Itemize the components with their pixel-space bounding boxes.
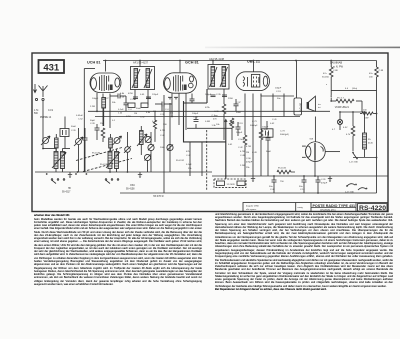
svg-text:C.19: C.19 bbox=[48, 110, 54, 112]
svg-text:C.42: C.42 bbox=[238, 147, 243, 149]
loudspeaker LS bbox=[307, 96, 322, 111]
trimmer capacitor CT1 bbox=[41, 136, 50, 145]
svg-text:C.19: C.19 bbox=[276, 91, 281, 93]
mechanical link (dashed vertical) bbox=[206, 130, 208, 190]
svg-text:50fl: 50fl bbox=[310, 139, 314, 141]
mid-right label column bbox=[246, 146, 257, 169]
capacitor C91 bbox=[316, 176, 328, 193]
svg-text:2.2M: 2.2M bbox=[240, 165, 245, 167]
svg-text:4700: 4700 bbox=[126, 116, 132, 118]
antenna coupling labels bbox=[34, 110, 54, 119]
antenna filter box bbox=[60, 115, 83, 137]
svg-text:30-450: 30-450 bbox=[322, 77, 330, 79]
svg-text:C.89: C.89 bbox=[379, 70, 384, 72]
svg-text:GCH 81: GCH 81 bbox=[185, 61, 199, 65]
front-end value labels row bbox=[118, 108, 174, 119]
svg-text:10k: 10k bbox=[216, 124, 220, 126]
ground symbols on chassis bus bbox=[68, 172, 332, 182]
wire: left chassis bus bbox=[35, 171, 212, 173]
wire: IF1 connections bbox=[135, 61, 148, 106]
oscillator feedback coil L4 (under V1) bbox=[102, 98, 106, 127]
wave band switch box (dashed) bbox=[214, 179, 246, 188]
drawing number RS-4220 bbox=[358, 204, 388, 211]
svg-text:95-4132: 95-4132 bbox=[278, 168, 287, 170]
svg-text:0.01: 0.01 bbox=[228, 144, 233, 146]
tone capacitor C73 labels bbox=[250, 119, 277, 127]
svg-text:0.05: 0.05 bbox=[140, 94, 145, 96]
svg-text:VC4B UBL21: VC4B UBL21 bbox=[335, 106, 350, 109]
coil section labels bbox=[62, 185, 164, 198]
svg-text:C.44: C.44 bbox=[270, 189, 275, 191]
wire: ground bus bbox=[212, 175, 388, 177]
padder capacitor CT3 bbox=[148, 132, 154, 172]
svg-text:5000(pF): 5000(pF) bbox=[280, 134, 289, 136]
oscillator coil L2 (hatched, tuned) bbox=[106, 149, 120, 173]
svg-text:100pF: 100pF bbox=[236, 132, 243, 134]
svg-text:750: 750 bbox=[280, 181, 284, 183]
svg-text:2-17-330: 2-17-330 bbox=[345, 192, 355, 194]
wire: right section verticals bbox=[340, 61, 377, 194]
svg-text:baujahr 1950: baujahr 1950 bbox=[246, 205, 260, 208]
svg-text:300: 300 bbox=[163, 124, 167, 126]
wire: top B+ bus bbox=[103, 60, 377, 62]
svg-text:0.1uF: 0.1uF bbox=[118, 109, 124, 111]
ballast coil (hatched vertical) bbox=[363, 112, 374, 157]
svg-text:C.52: C.52 bbox=[78, 119, 83, 121]
surge resistor R24 (vertical) bbox=[346, 112, 355, 151]
IF transformer T1 bbox=[131, 67, 155, 90]
svg-text:95-4136: 95-4136 bbox=[92, 153, 101, 155]
svg-text:C.90: C.90 bbox=[246, 158, 251, 160]
output transformer T3 bbox=[294, 61, 302, 116]
svg-text:4700: 4700 bbox=[128, 93, 134, 95]
svg-text:C.4: C.4 bbox=[128, 109, 132, 111]
labels near shield right bbox=[212, 115, 219, 127]
svg-text:AF1 95-4137: AF1 95-4137 bbox=[133, 61, 149, 65]
grid resistor R3 (vertical zigzag) bbox=[101, 128, 105, 142]
svg-text:95-4135: 95-4135 bbox=[100, 164, 109, 166]
oscillator grid capacitor C5 bbox=[95, 124, 100, 140]
trimmer capacitor CT2 bbox=[113, 136, 122, 145]
svg-text:50uF: 50uF bbox=[136, 108, 142, 110]
oscillator trimmer CT4 bbox=[145, 136, 151, 142]
left tuner verticals bbox=[43, 111, 84, 172]
wire: AVC bus bbox=[88, 110, 330, 112]
svg-text:OSC: OSC bbox=[130, 185, 135, 187]
svg-text:50u: 50u bbox=[299, 186, 303, 188]
tone cap label C73 bbox=[280, 131, 289, 136]
tube V3 UBL21 envelope bbox=[236, 72, 270, 91]
svg-text:1-17-330: 1-17-330 bbox=[349, 162, 359, 164]
gang coupling dash line 1 bbox=[76, 148, 122, 161]
aerial coil L1 (hatched, tuned) bbox=[52, 149, 66, 173]
electrolytic capacitor C44 bbox=[269, 176, 277, 193]
svg-text:4140: 4140 bbox=[368, 143, 374, 145]
svg-text:50k: 50k bbox=[112, 102, 116, 104]
svg-text:95-4149: 95-4149 bbox=[299, 103, 302, 112]
switch box internals bbox=[217, 181, 246, 186]
svg-text:alle spann.: alle spann. bbox=[246, 209, 257, 211]
svg-text:95 PRE 14: 95 PRE 14 bbox=[40, 117, 52, 119]
tone switch S3 bbox=[345, 184, 367, 194]
svg-text:C.26: C.26 bbox=[71, 130, 76, 132]
decoupling resistor R14 bbox=[277, 168, 295, 184]
svg-text:0.05uF: 0.05uF bbox=[76, 115, 83, 117]
schematic border frame bbox=[32, 53, 388, 212]
svg-text:1.7k: 1.7k bbox=[34, 110, 39, 112]
svg-text:C.27: C.27 bbox=[104, 98, 109, 100]
svg-text:w. N. PW: w. N. PW bbox=[333, 66, 344, 69]
svg-text:5000pF: 5000pF bbox=[250, 125, 258, 127]
svg-text:470k: 470k bbox=[205, 107, 211, 109]
mains switch S2 bbox=[349, 152, 359, 164]
title block bbox=[243, 203, 388, 213]
svg-text:1M: 1M bbox=[246, 152, 249, 154]
svg-text:6.3V: 6.3V bbox=[343, 127, 348, 129]
svg-text:POSTE RADIO TYPE 431: POSTE RADIO TYPE 431 bbox=[313, 204, 356, 208]
rectifier wiring bbox=[315, 117, 340, 177]
wire: V3 anode to output transformer bbox=[261, 94, 294, 97]
svg-text:C.48: C.48 bbox=[160, 135, 165, 137]
wire: V3 pin drops bbox=[245, 61, 261, 177]
tube V2 UCH81 envelope bbox=[164, 73, 197, 93]
svg-text:1M: 1M bbox=[134, 113, 137, 115]
capacitor C34 bbox=[192, 113, 199, 122]
svg-text:95-4158: 95-4158 bbox=[126, 189, 135, 191]
labels mid detector section bbox=[205, 94, 243, 149]
svg-text:200k: 200k bbox=[160, 147, 166, 149]
grid caps at shield top bbox=[168, 97, 178, 100]
svg-text:4.0: 4.0 bbox=[345, 88, 349, 90]
svg-text:431: 431 bbox=[43, 63, 60, 74]
svg-text:4.7k: 4.7k bbox=[346, 134, 351, 136]
mixer anode components cluster bbox=[120, 93, 151, 101]
AVC feed line with arrow bbox=[224, 119, 227, 180]
svg-text:95-4217: 95-4217 bbox=[62, 192, 71, 194]
svg-text:te+: te+ bbox=[318, 103, 322, 106]
svg-text:4.7M: 4.7M bbox=[246, 146, 251, 148]
svg-text:470pF: 470pF bbox=[321, 183, 328, 185]
svg-text:C.52: C.52 bbox=[140, 117, 145, 119]
svg-text:25k: 25k bbox=[246, 167, 250, 169]
svg-text:2200: 2200 bbox=[228, 98, 234, 100]
mains resistor R23 bbox=[360, 110, 377, 120]
scan fold streak top right bbox=[205, 47, 400, 49]
wire: V2 pin drops bbox=[172, 61, 186, 131]
svg-text:50u: 50u bbox=[269, 186, 273, 188]
svg-text:C.29: C.29 bbox=[130, 99, 135, 101]
svg-text:2.2k: 2.2k bbox=[120, 97, 125, 99]
cathode bypass cap C43 bbox=[264, 129, 271, 176]
wire: bottom bus bbox=[120, 192, 377, 194]
svg-text:6.8k: 6.8k bbox=[146, 112, 151, 114]
svg-text:tei: tei bbox=[318, 106, 321, 109]
screen dropper resistors row bbox=[190, 94, 239, 112]
svg-text:C.35: C.35 bbox=[216, 94, 221, 96]
svg-text:4.7M: 4.7M bbox=[160, 130, 165, 132]
service notes text, left column bbox=[34, 214, 202, 288]
wire: V1 grid feed bbox=[84, 69, 95, 112]
tube V4 rectifier envelope (circle) bbox=[302, 139, 325, 162]
aerial coil upper winding bbox=[55, 134, 59, 152]
svg-text:200: 200 bbox=[369, 77, 373, 79]
wire: mid verticals bbox=[170, 103, 202, 176]
svg-text:HF 476 %: HF 476 % bbox=[153, 195, 164, 198]
svg-text:RS-4220: RS-4220 bbox=[359, 205, 386, 212]
svg-text:4.7M: 4.7M bbox=[240, 151, 245, 153]
svg-text:2.2M: 2.2M bbox=[90, 106, 95, 108]
svg-text:470pF: 470pF bbox=[246, 162, 253, 164]
svg-text:UCH 81: UCH 81 bbox=[87, 61, 101, 65]
svg-text:C.Sep: C.Sep bbox=[212, 115, 219, 117]
svg-text:navig: navig bbox=[298, 207, 304, 209]
svg-text:12-2439: 12-2439 bbox=[227, 184, 236, 186]
value labels between V1 and V2 bbox=[152, 94, 167, 126]
svg-text:4.7: 4.7 bbox=[332, 129, 336, 131]
svg-text:C.88: C.88 bbox=[333, 70, 338, 72]
svg-text:50u: 50u bbox=[264, 129, 268, 131]
value labels cluster under V1 bbox=[90, 98, 116, 125]
svg-text:(50u): (50u) bbox=[352, 88, 357, 90]
wire: V1 pin drops bbox=[97, 61, 110, 129]
svg-text:0.1: 0.1 bbox=[112, 120, 116, 122]
wire: detector bus bbox=[187, 127, 232, 129]
svg-text:50uF: 50uF bbox=[266, 151, 272, 153]
RF coupling capacitor C2 bbox=[83, 128, 88, 172]
svg-text:100pF: 100pF bbox=[92, 98, 99, 100]
shield partition around oscillator/IF section bbox=[184, 89, 226, 142]
svg-text:0.1uF: 0.1uF bbox=[186, 164, 192, 166]
IF trimmer caps under T1 bbox=[128, 97, 151, 108]
svg-text:C.91: C.91 bbox=[321, 179, 326, 181]
tuning gang capacitor C1a bbox=[74, 128, 83, 172]
svg-text:C.Sep: C.Sep bbox=[238, 139, 245, 141]
oscillator trimmer CT5 bbox=[144, 154, 150, 172]
tuning gang capacitor C1b bbox=[124, 132, 131, 172]
caps under V1 row bbox=[110, 94, 129, 112]
model number box 431 bbox=[39, 60, 65, 73]
oscillator coil upper winding bbox=[109, 134, 113, 152]
svg-text:CHASSIS 4711: CHASSIS 4711 bbox=[320, 209, 336, 212]
svg-text:C.34: C.34 bbox=[193, 117, 198, 119]
svg-text:100pF: 100pF bbox=[275, 88, 282, 90]
svg-text:25k: 25k bbox=[188, 168, 192, 170]
svg-text:95-: 95- bbox=[368, 139, 371, 141]
oscillator tracking coil L3 bbox=[137, 126, 147, 155]
svg-text:PO 7.7: PO 7.7 bbox=[337, 98, 345, 100]
svg-text:42u: 42u bbox=[369, 73, 373, 75]
svg-text:6.8k: 6.8k bbox=[120, 93, 125, 95]
svg-text:C.47: C.47 bbox=[186, 155, 191, 157]
heater chain resistor R22 bbox=[331, 98, 362, 110]
grid leak resistor R11 bbox=[243, 135, 247, 176]
svg-text:C.73: C.73 bbox=[280, 131, 285, 133]
wave switch contact row bbox=[51, 179, 119, 184]
gang coupling dash line 2 bbox=[83, 159, 132, 172]
volume control R9 bbox=[229, 118, 234, 140]
svg-text:C.41: C.41 bbox=[272, 119, 277, 121]
svg-text:1.2k: 1.2k bbox=[118, 113, 123, 115]
mid resistor labels column bbox=[160, 88, 282, 171]
svg-text:5000: 5000 bbox=[236, 112, 242, 114]
svg-text:100: 100 bbox=[363, 110, 367, 112]
wire: IF2 connections bbox=[213, 61, 224, 105]
svg-text:0.1: 0.1 bbox=[170, 113, 174, 115]
svg-text:50n: 50n bbox=[277, 98, 281, 100]
svg-text:50uF: 50uF bbox=[71, 126, 77, 128]
svg-text:C.31: C.31 bbox=[160, 114, 165, 116]
dropper resistor R21 (vertical) bbox=[369, 67, 384, 81]
svg-text:HF: HF bbox=[68, 188, 72, 190]
electrolytic capacitor C14 bbox=[299, 176, 307, 193]
wire: screen bus bbox=[95, 116, 300, 118]
IF transformer T2 bbox=[208, 65, 229, 90]
tube V1 UCH81 envelope bbox=[90, 73, 121, 93]
wire: reservoir crossbar bbox=[331, 88, 376, 91]
svg-text:470: 470 bbox=[213, 119, 217, 121]
svg-text:C.73: C.73 bbox=[252, 121, 257, 123]
svg-text:120pF: 120pF bbox=[152, 94, 159, 96]
dial lamp bbox=[332, 112, 348, 131]
cathode resistor R12 bbox=[259, 130, 263, 176]
detector load resistor R8 bbox=[222, 104, 226, 140]
svg-text:C.49: C.49 bbox=[252, 152, 257, 154]
svg-text:C.28: C.28 bbox=[90, 123, 95, 125]
coupling capacitor C40 bbox=[236, 122, 241, 136]
service notes text, right column bbox=[215, 213, 393, 291]
svg-text:x: x bbox=[326, 84, 328, 86]
capacitor box C40b bbox=[262, 121, 273, 137]
wire: V2 grid riser bbox=[163, 95, 165, 193]
coupling network under V2 bbox=[153, 104, 162, 142]
svg-text:C.14: C.14 bbox=[300, 189, 305, 191]
smoothing resistor R20 (vertical) bbox=[322, 61, 338, 102]
svg-text:500: 500 bbox=[34, 113, 39, 115]
svg-text:0.02: 0.02 bbox=[270, 123, 275, 125]
svg-text:95-4132: 95-4132 bbox=[176, 160, 185, 162]
coupling caps row between stages bbox=[155, 102, 172, 107]
svg-text:C.19: C.19 bbox=[238, 123, 243, 125]
wire: V3 grid vertical bbox=[273, 94, 284, 117]
svg-text:47u: 47u bbox=[323, 73, 327, 75]
IF2 trimmer caps bbox=[211, 95, 228, 97]
svg-text:50pF: 50pF bbox=[90, 120, 96, 122]
svg-text:0.5M: 0.5M bbox=[205, 121, 210, 123]
svg-text:C.36: C.36 bbox=[214, 111, 219, 113]
padder capacitor CT6 bbox=[167, 144, 173, 150]
svg-text:C.4: C.4 bbox=[165, 109, 169, 111]
antenna bbox=[34, 84, 48, 149]
svg-text:100pF: 100pF bbox=[192, 113, 199, 115]
